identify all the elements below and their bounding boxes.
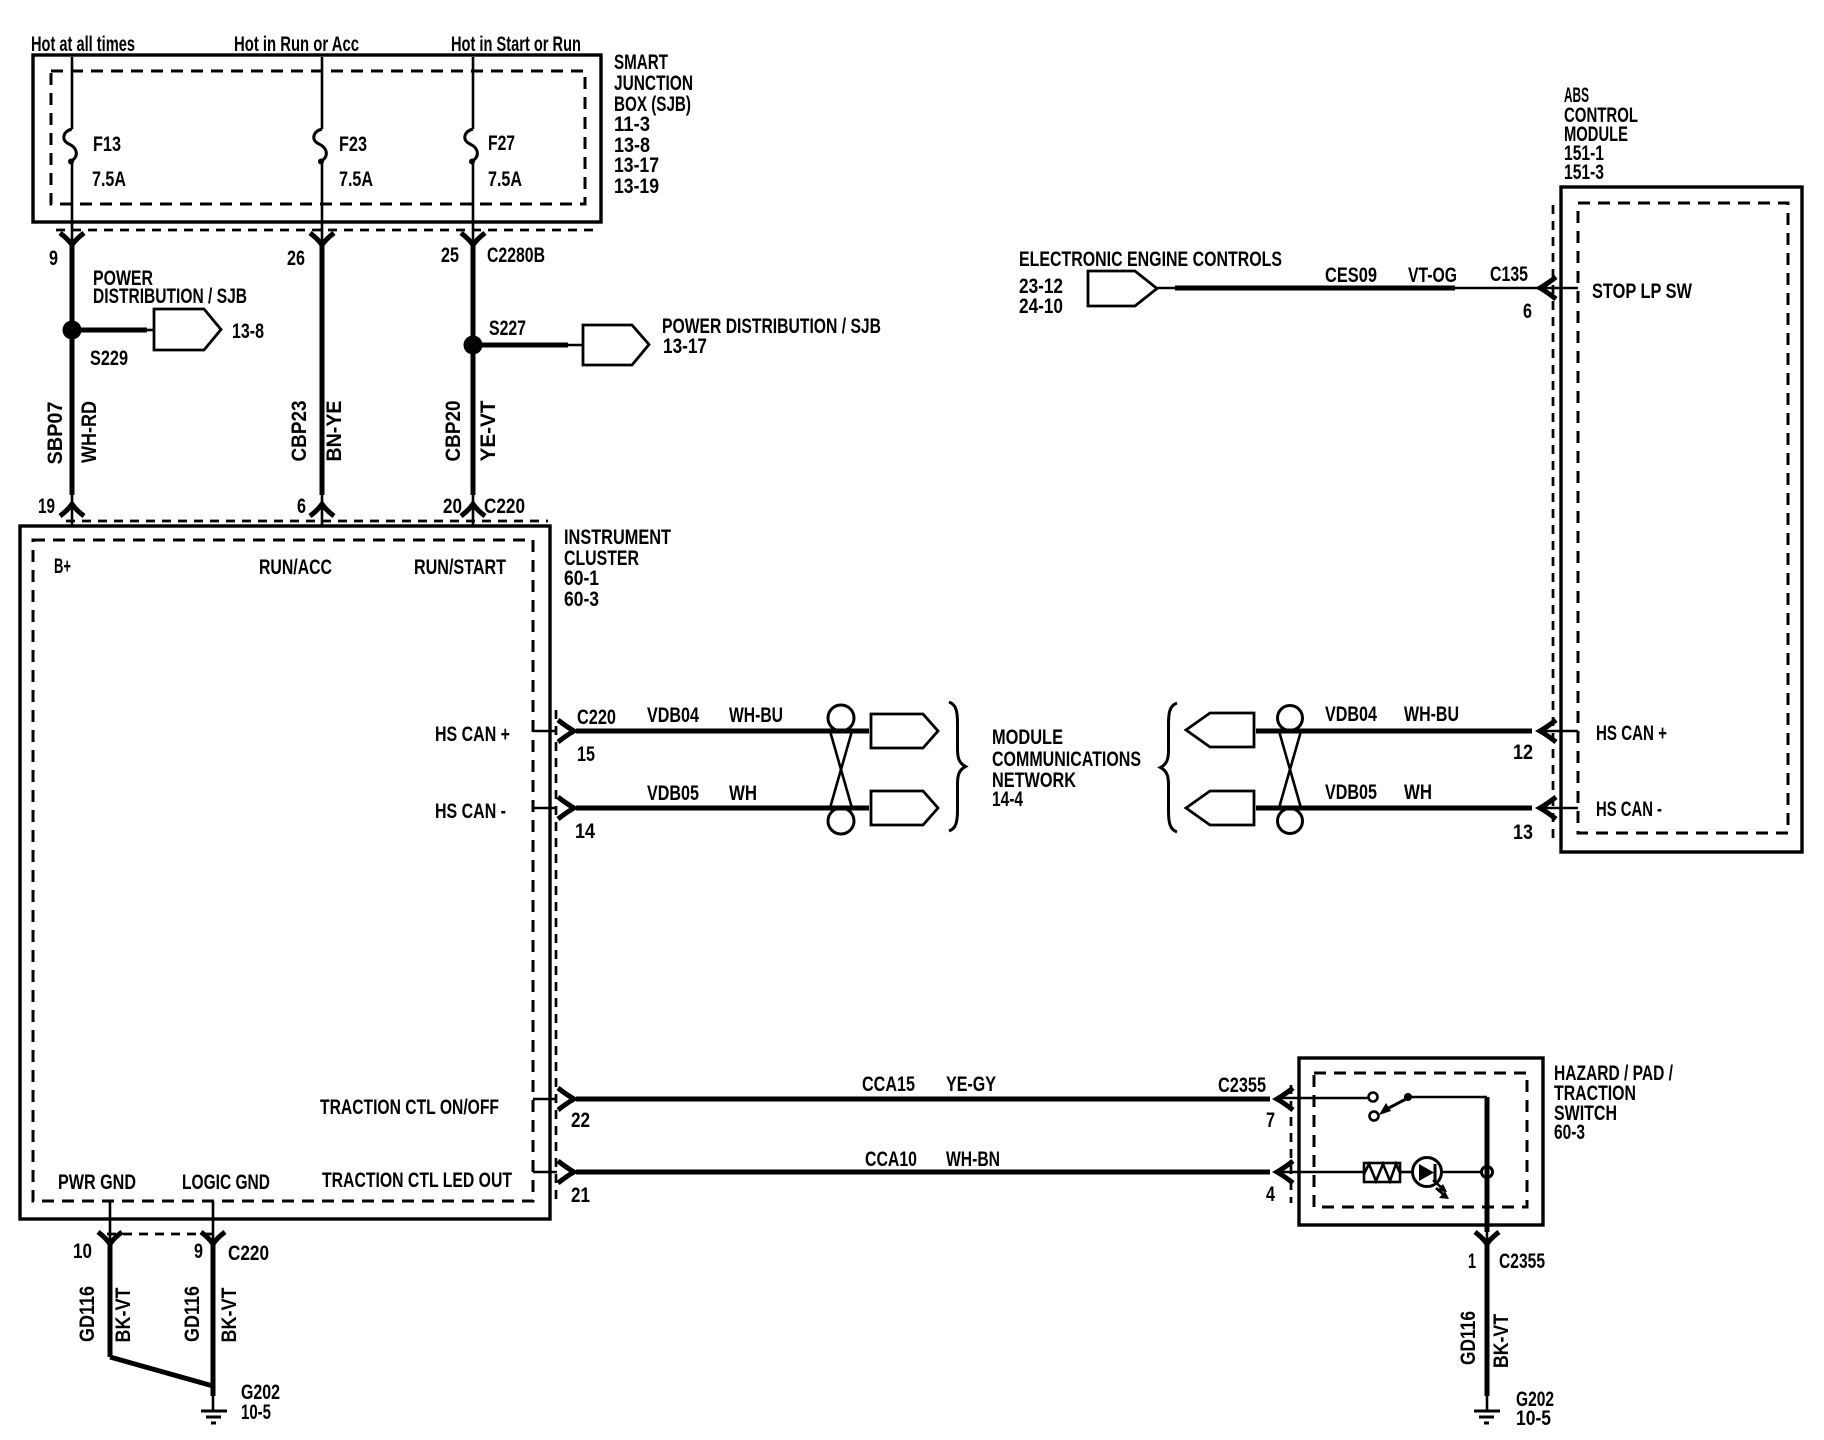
svg-text:BK-VT: BK-VT [1489, 1314, 1513, 1368]
wire hot in run or acc to fuse F23 [321, 57, 324, 129]
wire SBP07 WH-RD lower [70, 330, 75, 495]
ground G202 right [1474, 1410, 1500, 1413]
wire S229 to connector arrow 13-8 [74, 328, 147, 333]
svg-text:RUN/ACC: RUN/ACC [259, 555, 332, 579]
fuse F27 7.5A [465, 129, 478, 161]
wire VDB04 WH-BU right [1256, 729, 1532, 734]
wire S227 to connector arrow 13-17 [475, 343, 568, 348]
svg-text:13: 13 [1513, 820, 1533, 844]
off-page connector HS CAN - left [871, 791, 938, 825]
off-page connector 13-17 [583, 325, 649, 365]
svg-text:HS CAN -: HS CAN - [435, 799, 506, 823]
svg-text:CBP23: CBP23 [287, 400, 311, 461]
switch arm [1385, 1098, 1408, 1110]
twisted pair left [828, 705, 854, 731]
svg-text:CES09: CES09 [1325, 263, 1377, 287]
svg-text:7.5A: 7.5A [92, 167, 126, 191]
cluster pin 20 arrow [461, 504, 485, 516]
svg-text:F27: F27 [488, 131, 515, 155]
connector C2355 dashed line left of switch [1290, 1085, 1293, 1203]
svg-text:WH: WH [729, 781, 757, 805]
LED light arrows [1433, 1180, 1443, 1189]
svg-text:S229: S229 [90, 346, 128, 370]
svg-text:24-10: 24-10 [1019, 294, 1063, 318]
svg-text:CCA15: CCA15 [862, 1072, 915, 1096]
svg-text:VDB05: VDB05 [1325, 780, 1377, 804]
svg-text:GD116: GD116 [1456, 1311, 1480, 1365]
switch pin 1 arrow [1475, 1232, 1499, 1244]
svg-text:GD116: GD116 [180, 1286, 204, 1342]
svg-text:VDB04: VDB04 [647, 703, 699, 727]
svg-text:7.5A: 7.5A [488, 167, 522, 191]
wire CBP20 YE-VT lower [471, 345, 476, 495]
svg-text:CCA10: CCA10 [865, 1147, 917, 1171]
wire GD116 BK-VT pin 10 [108, 1244, 113, 1357]
svg-text:HS CAN +: HS CAN + [1596, 721, 1667, 745]
svg-text:12: 12 [1513, 740, 1533, 764]
svg-text:7: 7 [1266, 1108, 1275, 1132]
wire VDB05 WH right [1256, 806, 1532, 811]
smart junction box inner dashed [51, 71, 585, 204]
twisted pair right [1278, 706, 1303, 731]
instrument cluster box inner dashed [33, 540, 533, 1201]
wire GD116 BK-VT switch [1485, 1244, 1490, 1396]
svg-text:6: 6 [297, 494, 306, 518]
svg-text:9: 9 [49, 246, 58, 270]
cluster pin 14 wire and arrow [533, 807, 557, 810]
vertical wire inside switch [1485, 1097, 1490, 1232]
wire hot at all times to fuse F13 [71, 57, 74, 129]
svg-text:Hot in Start or Run: Hot in Start or Run [451, 32, 581, 56]
svg-text:RUN/START: RUN/START [414, 555, 506, 579]
svg-text:60-3: 60-3 [564, 587, 599, 611]
splice S227 [464, 336, 483, 355]
svg-text:6: 6 [1523, 299, 1532, 323]
svg-text:1: 1 [1468, 1249, 1476, 1273]
ABS pin 6 arrow [1540, 277, 1556, 299]
svg-text:VT-OG: VT-OG [1408, 263, 1457, 287]
cluster pin 15 wire and arrow [533, 730, 557, 733]
svg-text:C2280B: C2280B [487, 243, 545, 267]
svg-text:14: 14 [575, 819, 595, 843]
svg-text:WH-BU: WH-BU [1404, 702, 1459, 726]
svg-text:ELECTRONIC ENGINE CONTROLS: ELECTRONIC ENGINE CONTROLS [1019, 247, 1282, 271]
connector C2280B dashed line [56, 229, 598, 232]
svg-text:10-5: 10-5 [241, 1400, 271, 1424]
svg-text:GD116: GD116 [75, 1286, 99, 1342]
svg-text:YE-GY: YE-GY [946, 1072, 996, 1096]
brace right group [1161, 703, 1178, 832]
smart junction box outer [33, 55, 601, 222]
SJB pin 9 arrow [71, 233, 74, 246]
off-page connector HS CAN + right [1186, 713, 1254, 747]
svg-text:BN-YE: BN-YE [322, 401, 346, 462]
svg-text:VDB05: VDB05 [647, 781, 699, 805]
off-page connector 13-8 [154, 309, 221, 350]
svg-text:Hot at all times: Hot at all times [31, 32, 135, 56]
svg-text:BK-VT: BK-VT [217, 1288, 241, 1343]
hazard pad traction switch box outer [1299, 1058, 1543, 1225]
svg-text:CBP20: CBP20 [441, 400, 465, 461]
svg-text:F23: F23 [339, 132, 367, 156]
ABS control module box inner dashed [1578, 203, 1788, 833]
svg-text:TRACTION CTL ON/OFF: TRACTION CTL ON/OFF [320, 1095, 499, 1119]
svg-text:10-5: 10-5 [1516, 1406, 1551, 1430]
svg-text:C220: C220 [577, 705, 616, 729]
svg-text:STOP LP SW: STOP LP SW [1592, 279, 1693, 303]
resistor in switch [1364, 1163, 1400, 1182]
svg-text:HS CAN +: HS CAN + [435, 722, 510, 746]
svg-text:14-4: 14-4 [992, 787, 1023, 811]
off-page connector HS CAN + left [871, 714, 938, 748]
svg-text:B+: B+ [54, 554, 71, 578]
connector C220 dashed line right of cluster [555, 710, 558, 1200]
wire VDB05 WH left [576, 806, 869, 811]
connector C220 dashed segment [107, 1233, 216, 1236]
svg-text:PWR GND: PWR GND [58, 1170, 136, 1194]
svg-text:C220: C220 [484, 494, 525, 518]
ABS pin 13 arrow [1540, 797, 1556, 819]
cluster pin 22 wire and arrow [533, 1098, 557, 1101]
svg-text:13-17: 13-17 [663, 334, 707, 358]
ground G202 left [201, 1410, 227, 1413]
SJB pin 26 arrow [321, 233, 324, 246]
svg-text:C220: C220 [228, 1241, 269, 1265]
svg-text:DISTRIBUTION / SJB: DISTRIBUTION / SJB [93, 284, 247, 308]
svg-text:C135: C135 [1490, 262, 1528, 286]
svg-text:19: 19 [38, 494, 55, 518]
svg-text:Hot in Run or Acc: Hot in Run or Acc [234, 32, 359, 56]
wire GD116 BK-VT pin 9 [211, 1244, 216, 1396]
off-page connector electronic engine controls [1088, 271, 1157, 306]
fuse F13 7.5A [64, 129, 77, 161]
wire CCA15 YE-GY [576, 1097, 1270, 1102]
svg-text:WH-BU: WH-BU [729, 703, 783, 727]
wire SBP07 WH-RD upper [70, 245, 75, 330]
connector C220 dashed line above cluster [66, 520, 548, 523]
switch pin 7 arrow [1277, 1088, 1293, 1110]
LED indicator in switch [1400, 1171, 1413, 1174]
SJB pin 25 arrow [472, 233, 475, 246]
connector dashed line left of ABS [1552, 205, 1555, 845]
switch contact lower [1370, 1112, 1379, 1121]
svg-text:HS CAN -: HS CAN - [1596, 797, 1662, 821]
svg-text:25: 25 [441, 243, 459, 267]
wire CCA10 WH-BN [576, 1170, 1270, 1175]
wire fuse F13 to SJB pin 9 [71, 162, 74, 233]
svg-text:4: 4 [1266, 1182, 1275, 1206]
svg-text:26: 26 [287, 246, 305, 270]
svg-text:20: 20 [443, 494, 462, 518]
svg-text:MODULE: MODULE [992, 725, 1063, 749]
svg-text:TRACTION CTL LED OUT: TRACTION CTL LED OUT [322, 1168, 512, 1192]
hazard pad traction switch box inner dashed [1314, 1073, 1527, 1207]
svg-text:VDB04: VDB04 [1325, 702, 1377, 726]
svg-text:WH-RD: WH-RD [77, 401, 101, 463]
wire fuse F27 to SJB pin 25 [472, 162, 475, 233]
cluster pin 6 arrow [310, 504, 334, 516]
ABS control module box outer [1561, 187, 1802, 852]
fuse F23 7.5A [314, 129, 327, 161]
wire switch arm to vertical wire [1408, 1096, 1487, 1099]
wire CBP20 YE-VT upper [471, 245, 476, 345]
svg-text:C2355: C2355 [1499, 1249, 1545, 1273]
svg-text:LOGIC GND: LOGIC GND [182, 1170, 270, 1194]
switch pin 4 arrow [1277, 1161, 1293, 1183]
svg-text:YE-VT: YE-VT [476, 401, 500, 462]
svg-text:22: 22 [571, 1108, 590, 1132]
svg-text:SBP07: SBP07 [43, 401, 67, 464]
wire hot in start or run to fuse F27 [472, 57, 475, 129]
cluster pin 19 arrow [60, 504, 84, 516]
ABS pin 12 arrow [1540, 720, 1556, 742]
wire splice to ground [110, 1357, 213, 1386]
svg-text:15: 15 [577, 742, 595, 766]
brace left group [949, 702, 966, 831]
svg-text:F13: F13 [93, 132, 121, 156]
svg-text:WH-BN: WH-BN [946, 1147, 1000, 1171]
svg-text:21: 21 [571, 1183, 590, 1207]
cluster pin 9 wire and arrow [212, 1201, 215, 1245]
cluster pin 10 wire and arrow [109, 1201, 112, 1245]
wire VDB04 WH-BU left [576, 729, 869, 734]
instrument cluster box outer [20, 526, 550, 1219]
svg-text:7.5A: 7.5A [339, 167, 373, 191]
svg-text:13-19: 13-19 [614, 174, 659, 198]
splice S229 [63, 321, 82, 340]
wire CES09 VT-OG [1157, 287, 1178, 290]
junction node in switch [1482, 1167, 1493, 1178]
wire fuse F23 to SJB pin 26 [321, 162, 324, 233]
svg-text:9: 9 [194, 1239, 203, 1263]
svg-text:151-3: 151-3 [1564, 160, 1604, 184]
svg-text:10: 10 [73, 1239, 92, 1263]
svg-text:13-8: 13-8 [232, 319, 264, 343]
svg-text:S227: S227 [489, 316, 526, 340]
cluster pin 21 wire and arrow [533, 1171, 557, 1174]
svg-text:60-3: 60-3 [1554, 1120, 1585, 1144]
wire CBP23 BN-YE [320, 245, 325, 495]
svg-text:WH: WH [1404, 780, 1432, 804]
off-page connector HS CAN - right [1186, 791, 1254, 825]
svg-text:C2355: C2355 [1218, 1073, 1266, 1097]
svg-text:BK-VT: BK-VT [111, 1288, 135, 1343]
switch contact from pin 7 [1369, 1093, 1378, 1102]
